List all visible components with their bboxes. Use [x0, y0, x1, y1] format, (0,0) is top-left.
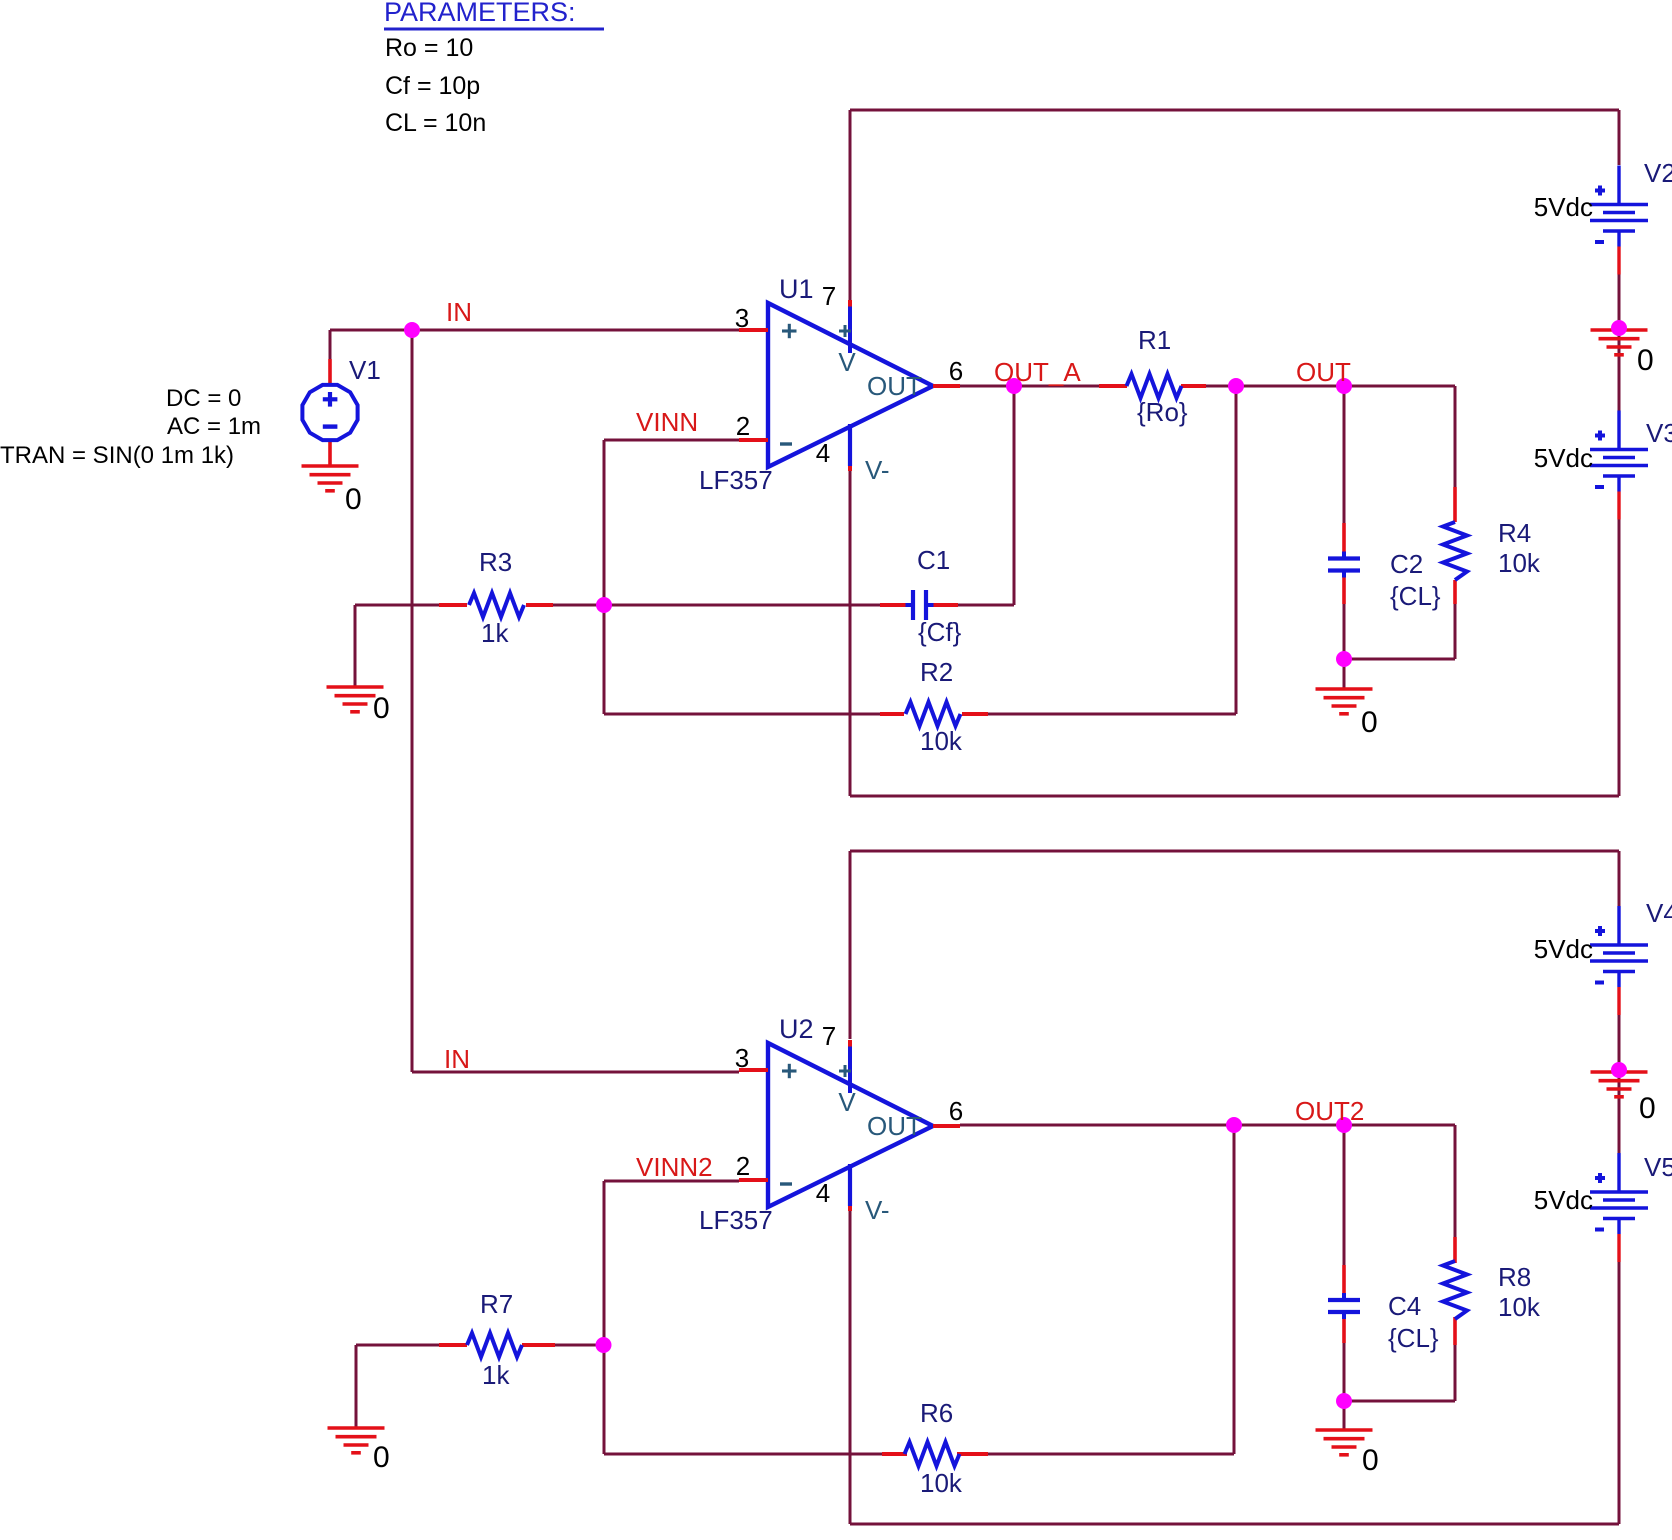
- svg-text:V-: V-: [865, 1195, 890, 1225]
- svg-text:10k: 10k: [1498, 1292, 1541, 1322]
- svg-text:7: 7: [822, 281, 836, 311]
- svg-text:C2: C2: [1390, 549, 1423, 579]
- svg-text:C1: C1: [917, 545, 950, 575]
- svg-text:R3: R3: [479, 547, 512, 577]
- svg-text:CL = 10n: CL = 10n: [385, 109, 486, 137]
- svg-text:R7: R7: [480, 1289, 513, 1319]
- svg-text:TRAN = SIN(0 1m 1k): TRAN = SIN(0 1m 1k): [0, 442, 234, 469]
- svg-text:V: V: [838, 1087, 856, 1117]
- svg-text:R1: R1: [1138, 325, 1171, 355]
- svg-text:{CL}: {CL}: [1388, 1323, 1439, 1353]
- svg-text:0: 0: [1362, 1444, 1379, 1477]
- svg-text:{Cf}: {Cf}: [918, 617, 962, 647]
- svg-text:2: 2: [736, 1151, 750, 1181]
- svg-text:U1: U1: [779, 274, 814, 304]
- svg-text:5Vdc: 5Vdc: [1534, 1185, 1593, 1215]
- svg-text:DC = 0: DC = 0: [166, 385, 241, 412]
- svg-text:4: 4: [816, 1178, 830, 1208]
- svg-text:1k: 1k: [482, 1360, 510, 1390]
- svg-text:C4: C4: [1388, 1291, 1421, 1321]
- svg-text:R8: R8: [1498, 1262, 1531, 1292]
- svg-text:R2: R2: [920, 657, 953, 687]
- svg-text:OUT: OUT: [867, 1111, 922, 1141]
- svg-text:0: 0: [345, 483, 362, 516]
- svg-text:0: 0: [1361, 706, 1378, 739]
- svg-text:5Vdc: 5Vdc: [1534, 443, 1593, 473]
- svg-text:10k: 10k: [1498, 548, 1541, 578]
- svg-text:3: 3: [735, 303, 749, 333]
- svg-text:LF357: LF357: [699, 465, 773, 495]
- svg-text:R6: R6: [920, 1398, 953, 1428]
- svg-text:Cf = 10p: Cf = 10p: [385, 72, 480, 100]
- svg-text:0: 0: [373, 1441, 390, 1474]
- svg-text:2: 2: [736, 411, 750, 441]
- svg-text:6: 6: [949, 1096, 963, 1126]
- svg-text:U2: U2: [779, 1014, 814, 1044]
- svg-text:10k: 10k: [920, 726, 963, 756]
- svg-text:PARAMETERS:: PARAMETERS:: [384, 0, 576, 27]
- svg-text:Ro = 10: Ro = 10: [385, 34, 473, 62]
- svg-text:IN: IN: [446, 297, 472, 327]
- svg-text:3: 3: [735, 1043, 749, 1073]
- svg-text:AC = 1m: AC = 1m: [167, 413, 261, 440]
- svg-text:VINN: VINN: [636, 407, 698, 437]
- svg-text:V1: V1: [349, 355, 381, 385]
- svg-text:V4: V4: [1646, 898, 1672, 928]
- svg-text:LF357: LF357: [699, 1205, 773, 1235]
- svg-text:0: 0: [373, 692, 390, 725]
- svg-text:V: V: [838, 347, 856, 377]
- svg-text:5Vdc: 5Vdc: [1534, 192, 1593, 222]
- svg-text:OUT_A: OUT_A: [994, 357, 1081, 387]
- svg-text:4: 4: [816, 438, 830, 468]
- svg-text:OUT: OUT: [1296, 357, 1351, 387]
- svg-text:0: 0: [1639, 1092, 1656, 1125]
- svg-text:V3: V3: [1646, 418, 1672, 448]
- svg-text:VINN2: VINN2: [636, 1152, 713, 1182]
- svg-text:10k: 10k: [920, 1468, 963, 1498]
- svg-text:{CL}: {CL}: [1390, 581, 1441, 611]
- svg-text:V2: V2: [1644, 158, 1672, 188]
- svg-text:OUT2: OUT2: [1295, 1096, 1364, 1126]
- svg-text:R4: R4: [1498, 518, 1531, 548]
- svg-text:V5: V5: [1644, 1152, 1672, 1182]
- svg-text:V-: V-: [865, 455, 890, 485]
- svg-text:7: 7: [822, 1021, 836, 1051]
- svg-text:1k: 1k: [481, 618, 509, 648]
- svg-text:OUT: OUT: [867, 371, 922, 401]
- svg-text:IN: IN: [444, 1044, 470, 1074]
- svg-text:5Vdc: 5Vdc: [1534, 934, 1593, 964]
- svg-text:{Ro}: {Ro}: [1137, 397, 1188, 427]
- svg-text:0: 0: [1637, 344, 1654, 377]
- svg-text:6: 6: [949, 356, 963, 386]
